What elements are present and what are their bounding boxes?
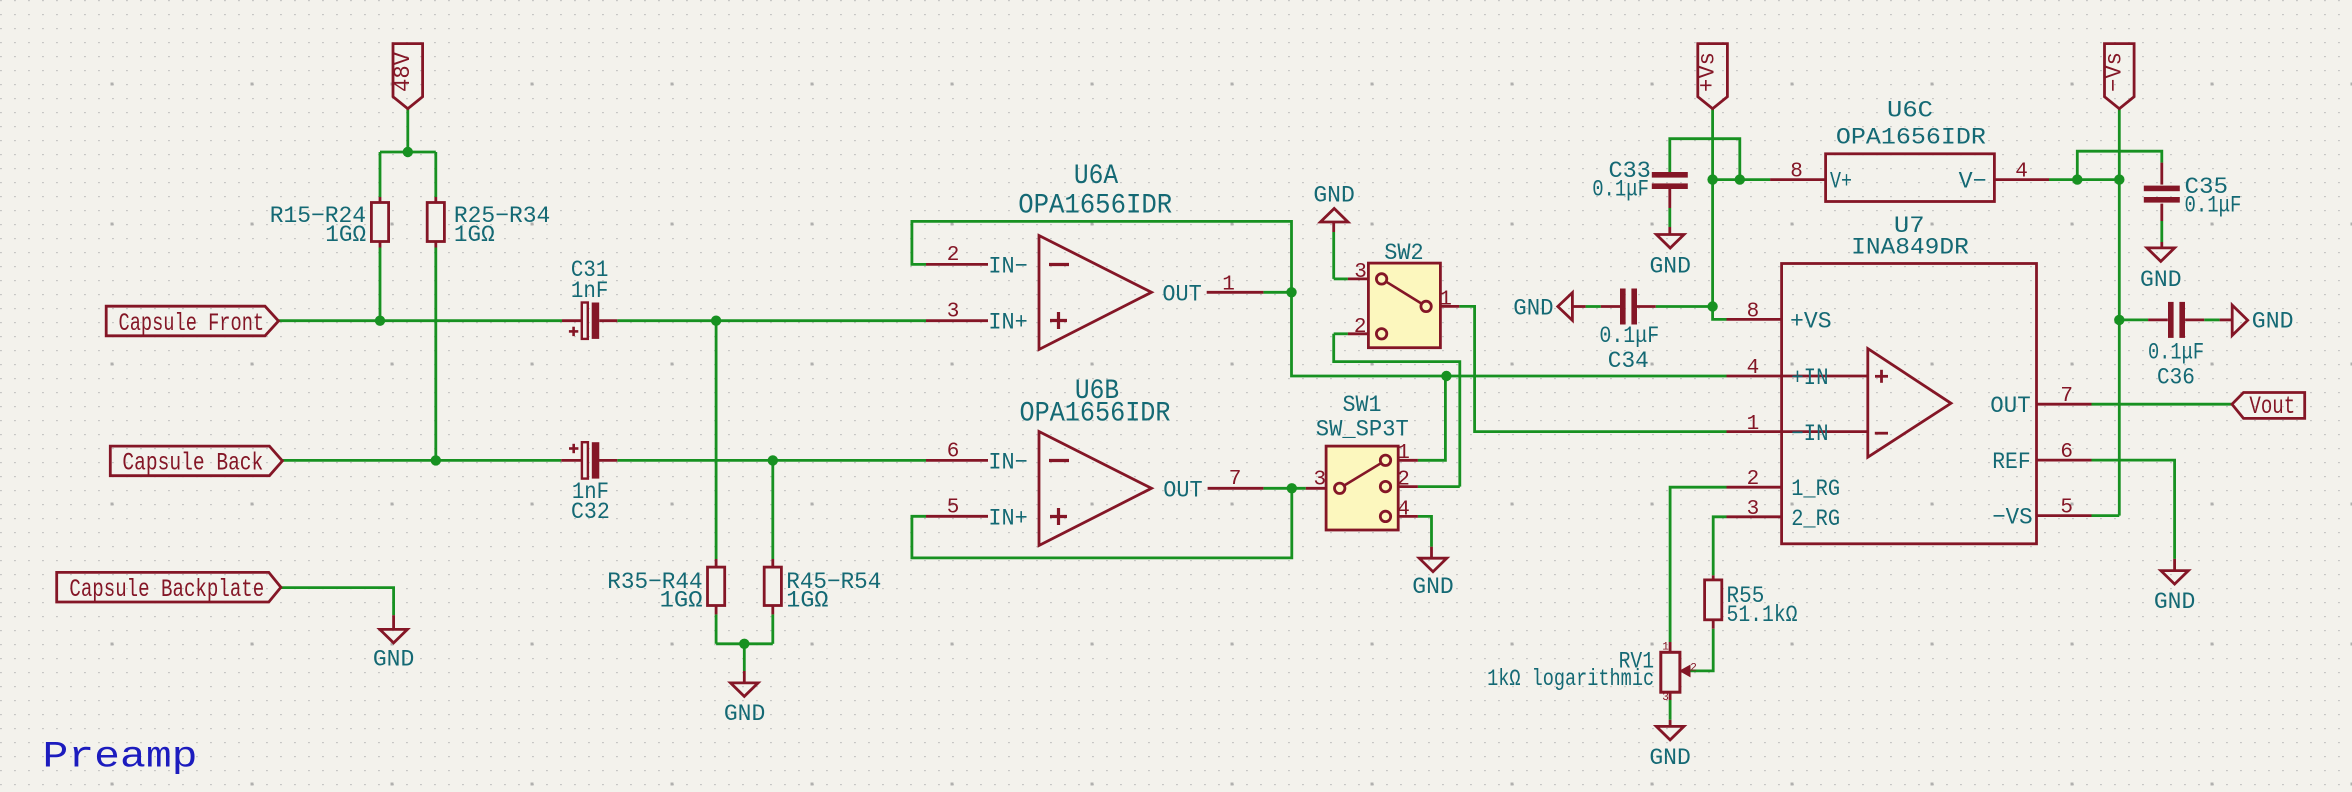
- svg-text:1GΩ: 1GΩ: [454, 222, 495, 248]
- svg-text:OUT: OUT: [1162, 281, 1201, 307]
- svg-text:GND: GND: [1513, 296, 1553, 322]
- svg-text:IN−: IN−: [988, 449, 1027, 475]
- svg-text:2_RG: 2_RG: [1791, 506, 1840, 532]
- svg-text:6: 6: [947, 440, 960, 463]
- svg-text:1nF: 1nF: [571, 278, 609, 304]
- svg-text:GND: GND: [1412, 574, 1454, 600]
- svg-text:1GΩ: 1GΩ: [325, 222, 366, 248]
- svg-text:−IN: −IN: [1791, 421, 1828, 447]
- svg-text:3: 3: [1747, 498, 1760, 521]
- svg-text:U6C: U6C: [1887, 98, 1933, 124]
- svg-text:+IN: +IN: [1791, 365, 1828, 391]
- svg-text:2: 2: [1747, 468, 1760, 491]
- svg-text:−VS: −VS: [1992, 505, 2032, 531]
- svg-text:OPA1656IDR: OPA1656IDR: [1018, 191, 1172, 222]
- svg-text:1_RG: 1_RG: [1791, 476, 1840, 502]
- svg-text:51.1kΩ: 51.1kΩ: [1727, 602, 1798, 628]
- svg-text:SW2: SW2: [1384, 240, 1423, 266]
- svg-text:2: 2: [1690, 662, 1697, 674]
- svg-text:SW1: SW1: [1343, 392, 1382, 418]
- svg-text:Vout: Vout: [2249, 392, 2295, 421]
- svg-text:3: 3: [1313, 469, 1326, 492]
- svg-text:−Vs: −Vs: [2101, 52, 2127, 92]
- svg-text:1: 1: [1439, 288, 1452, 311]
- svg-text:5: 5: [947, 497, 960, 520]
- svg-text:+VS: +VS: [1790, 308, 1832, 334]
- svg-text:INA849DR: INA849DR: [1851, 235, 1969, 261]
- svg-text:2: 2: [1354, 316, 1367, 339]
- svg-text:V+: V+: [1830, 169, 1852, 195]
- svg-text:4: 4: [1747, 357, 1760, 380]
- svg-text:SW_SP3T: SW_SP3T: [1316, 416, 1409, 442]
- svg-text:7: 7: [2060, 385, 2073, 408]
- svg-text:1: 1: [1662, 642, 1669, 654]
- svg-text:GND: GND: [373, 647, 415, 673]
- svg-text:C34: C34: [1608, 348, 1649, 374]
- svg-text:GND: GND: [1313, 183, 1355, 209]
- svg-text:6: 6: [2060, 441, 2073, 464]
- svg-text:Capsule Front: Capsule Front: [119, 309, 265, 338]
- svg-text:1kΩ logarithmic: 1kΩ logarithmic: [1487, 666, 1654, 692]
- svg-text:OPA1656IDR: OPA1656IDR: [1836, 125, 1986, 151]
- svg-text:8: 8: [1747, 300, 1760, 323]
- svg-text:Capsule Back: Capsule Back: [122, 449, 263, 478]
- svg-text:GND: GND: [724, 701, 766, 727]
- svg-text:OUT: OUT: [1163, 477, 1202, 503]
- svg-text:Preamp: Preamp: [43, 737, 198, 779]
- svg-text:0.1μF: 0.1μF: [2148, 340, 2204, 366]
- svg-text:IN−: IN−: [988, 253, 1027, 279]
- svg-text:0.1μF: 0.1μF: [1592, 177, 1649, 203]
- svg-text:1: 1: [1222, 273, 1235, 296]
- svg-text:IN+: IN+: [988, 310, 1027, 336]
- svg-text:7: 7: [1229, 468, 1242, 491]
- svg-text:3: 3: [947, 301, 960, 324]
- svg-text:5: 5: [2060, 497, 2073, 520]
- svg-text:GND: GND: [2154, 589, 2196, 615]
- svg-text:C32: C32: [571, 499, 610, 525]
- svg-text:0.1μF: 0.1μF: [2185, 193, 2242, 219]
- svg-text:Capsule Backplate: Capsule Backplate: [69, 575, 264, 604]
- svg-text:U6A: U6A: [1074, 161, 1118, 192]
- svg-text:2: 2: [1397, 469, 1410, 492]
- svg-text:C36: C36: [2157, 365, 2195, 391]
- svg-text:3: 3: [1354, 261, 1367, 284]
- svg-text:1GΩ: 1GΩ: [786, 588, 828, 614]
- svg-text:1: 1: [1397, 442, 1410, 465]
- svg-text:V−: V−: [1959, 169, 1987, 195]
- svg-text:4: 4: [2015, 161, 2028, 184]
- svg-text:GND: GND: [1649, 745, 1691, 771]
- svg-text:2: 2: [947, 244, 960, 267]
- svg-text:GND: GND: [1649, 253, 1691, 279]
- svg-text:0.1μF: 0.1μF: [1599, 323, 1659, 349]
- svg-text:GND: GND: [2252, 309, 2294, 335]
- svg-text:3: 3: [1662, 692, 1669, 704]
- svg-text:1GΩ: 1GΩ: [660, 588, 703, 614]
- svg-text:1: 1: [1747, 413, 1760, 436]
- svg-text:OUT: OUT: [1990, 393, 2030, 419]
- svg-text:4: 4: [1397, 498, 1410, 521]
- svg-text:+Vs: +Vs: [1695, 52, 1721, 92]
- svg-text:GND: GND: [2140, 267, 2182, 293]
- svg-text:8: 8: [1790, 161, 1803, 184]
- svg-text:48V: 48V: [390, 52, 416, 92]
- svg-text:OPA1656IDR: OPA1656IDR: [1020, 399, 1171, 430]
- svg-text:IN+: IN+: [988, 506, 1027, 532]
- svg-text:REF: REF: [1992, 449, 2031, 475]
